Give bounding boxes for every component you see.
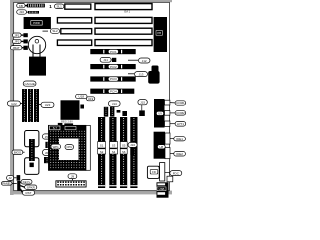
svg-text:PANEL: PANEL [2, 182, 11, 186]
QFP controller chip [61, 100, 80, 120]
PCI slot 4 [90, 89, 134, 94]
cap right of jumpers [122, 111, 127, 116]
floppy tab [160, 163, 165, 181]
svg-text:S1: S1 [100, 143, 104, 147]
SIMM bank label 3a [120, 142, 127, 148]
svg-text:S3: S3 [112, 143, 116, 147]
svg-text:J13: J13 [139, 72, 144, 76]
jumper JP2 pins [23, 39, 27, 43]
svg-text:JBAT: JBAT [13, 46, 20, 50]
COM2 oval [170, 111, 186, 115]
svg-text:S.7: S.7 [53, 126, 58, 130]
svg-text:PCI3: PCI3 [110, 77, 117, 81]
SIMM socket 4 [130, 117, 137, 188]
serial tab 1 [165, 100, 170, 105]
ISA slot 2 segment B [95, 28, 152, 34]
svg-text:KB: KB [19, 4, 23, 8]
power led label [17, 10, 28, 14]
jumper JP1 oval [13, 33, 24, 37]
panel oval c [22, 190, 34, 195]
ISA slot 4 segment A [57, 40, 91, 45]
svg-text:U19: U19 [88, 97, 94, 101]
SIMM socket 3 [120, 117, 127, 188]
memory oval J16 [128, 142, 137, 148]
svg-text:CPU: CPU [66, 145, 72, 149]
svg-text:J11: J11 [103, 58, 108, 62]
svg-text:COM2: COM2 [176, 111, 185, 115]
regulator bits [64, 123, 73, 126]
BIOS label oval [12, 150, 25, 154]
SIMM jumper oval [109, 101, 121, 106]
multi I/O pin header [56, 181, 86, 187]
svg-text:IDE2: IDE2 [176, 152, 183, 156]
jumper JP1 pins [23, 33, 27, 37]
serial oval on block [156, 111, 163, 115]
QFP label oval 2 [86, 97, 94, 101]
IDE1 oval [170, 137, 185, 141]
svg-text:JP2: JP2 [14, 40, 20, 44]
svg-text:S5: S5 [122, 143, 126, 147]
ZIF lever strip [86, 125, 90, 170]
floppy oval [165, 171, 182, 176]
svg-text:J16: J16 [130, 143, 135, 147]
front panel fan bracket [17, 181, 24, 193]
front panel oval J2 [7, 175, 17, 180]
floppy connector D label [150, 169, 158, 174]
svg-text:REG 2.8V: REG 2.8V [61, 119, 73, 123]
svg-text:U22: U22 [11, 102, 17, 106]
svg-text:KEYL: KEYL [23, 180, 31, 184]
ISA slot 2 segment A [61, 29, 92, 34]
jumper oval J13 with arrow [128, 72, 148, 77]
external connector E [157, 182, 169, 197]
jumper row oval J12 with arrow [128, 58, 150, 63]
svg-text:IDE1: IDE1 [176, 137, 183, 141]
serial tab 3 [165, 121, 170, 126]
svg-text:RST: RST [26, 191, 32, 195]
IDE tab 1 [165, 133, 170, 144]
svg-text:SL2: SL2 [52, 29, 58, 33]
small bar near jumpers [117, 110, 121, 113]
svg-text:SPKR: SPKR [27, 185, 36, 189]
keyboard DIN connector [27, 4, 45, 8]
svg-text:FD: FD [152, 170, 156, 174]
QFP label oval 1 [76, 94, 87, 98]
cache chip 2 [28, 89, 33, 122]
ISA slot 1 segment A [65, 4, 91, 9]
CPU socket 7 [49, 125, 86, 170]
svg-text:ISA 1: ISA 1 [124, 10, 131, 14]
jumper JP2 oval [13, 39, 24, 43]
svg-text:S2: S2 [100, 150, 104, 154]
jumper JP3 pins [23, 46, 27, 50]
serial tab 2 [165, 111, 170, 116]
svg-text:J14: J14 [112, 102, 117, 106]
ISA slot 1 segment B [95, 4, 152, 10]
external tab [167, 176, 173, 182]
jumper JP3 oval [11, 46, 24, 50]
SIMM bank label 1a [98, 142, 106, 148]
board shadow top [10, 0, 172, 2]
cache chip 3 [34, 89, 39, 122]
cache right oval [39, 102, 54, 107]
svg-text:J9: J9 [71, 174, 75, 178]
fan label oval [68, 174, 77, 180]
COM1 oval [170, 101, 186, 105]
jumper J6 pins [44, 157, 50, 163]
QFP side cap [80, 105, 84, 109]
svg-text:P8: P8 [157, 31, 161, 35]
battery [28, 36, 45, 57]
front panel oval J3 [1, 182, 16, 186]
svg-text:PCI2: PCI2 [110, 65, 117, 69]
flash BIOS chip [29, 139, 35, 161]
ISA slot 3 segment B [95, 17, 152, 23]
jumper row oval J11 [100, 57, 112, 62]
svg-text:SL1: SL1 [57, 5, 63, 9]
svg-text:1: 1 [49, 4, 52, 9]
IDE2 oval [170, 151, 185, 156]
ISA slot 1 label [55, 4, 64, 9]
svg-text:U18: U18 [79, 95, 85, 99]
svg-text:JP1: JP1 [14, 33, 20, 37]
panel oval b [25, 185, 37, 189]
SIMM bank label 2a [110, 142, 118, 148]
jumper oval J6 [43, 149, 51, 155]
svg-text:J12: J12 [142, 59, 147, 63]
svg-text:U23: U23 [45, 103, 51, 107]
svg-text:LPT1: LPT1 [177, 122, 185, 126]
svg-text:S6: S6 [122, 150, 126, 154]
svg-text:BIOS: BIOS [14, 150, 21, 154]
board shadow bottom [10, 191, 172, 195]
SIMM header jumper 1 [104, 107, 108, 117]
serial port block A [154, 99, 165, 128]
board shadow left [10, 0, 14, 195]
cache left oval [7, 101, 22, 106]
SIMM bank label 2b [110, 149, 118, 154]
PCI slot 2 [90, 64, 135, 69]
svg-text:J15: J15 [140, 101, 145, 105]
front panel J2 pins [17, 175, 21, 181]
cache chip 1 [22, 89, 27, 122]
SIMM bank label 3b [120, 149, 127, 154]
svg-text:FDC: FDC [173, 171, 180, 175]
DIP socket 1 [25, 131, 39, 147]
svg-text:U9: U9 [158, 112, 162, 116]
power label oval with arrow [43, 29, 60, 34]
svg-text:J5: J5 [45, 135, 49, 139]
svg-text:S4: S4 [112, 150, 116, 154]
header bar J10 [28, 11, 39, 14]
board outline [14, 2, 170, 190]
svg-text:PWR: PWR [33, 21, 40, 25]
svg-text:WP1: WP1 [53, 145, 60, 149]
jumper J11 pins [112, 58, 116, 62]
power connector block [24, 17, 51, 29]
svg-text:PCI1: PCI1 [110, 50, 117, 54]
IDE block B [154, 132, 165, 159]
PCI slot 1 [90, 49, 135, 54]
regulator blob [148, 66, 159, 84]
SIMM socket 2 [109, 117, 116, 188]
svg-text:J6: J6 [45, 151, 49, 155]
cap with oval label [138, 100, 147, 111]
keyboard connector label KB [17, 3, 27, 7]
PCI slot 3 [90, 76, 135, 81]
DIP socket 2 [25, 158, 39, 175]
IDE oval on block [157, 145, 165, 149]
svg-text:U8: U8 [160, 145, 164, 149]
SIMM header jumper 2 [110, 107, 114, 117]
chip in socket 2 [30, 163, 34, 168]
panel oval a [21, 180, 32, 184]
svg-text:J10: J10 [19, 10, 24, 14]
cache label oval [23, 81, 36, 86]
SIMM bank label 1b [98, 149, 106, 154]
svg-text:J2: J2 [9, 176, 13, 180]
chipset U1 [29, 57, 46, 76]
ISA slot 3 segment A [57, 18, 91, 23]
svg-text:CACHE: CACHE [24, 82, 35, 86]
floppy connector D [147, 166, 159, 178]
LPT oval [170, 122, 186, 127]
svg-text:PCI4: PCI4 [110, 89, 117, 93]
socket ring label [51, 144, 61, 149]
svg-text:USB: USB [159, 187, 165, 191]
J16 pins [130, 149, 134, 155]
svg-text:COM1: COM1 [176, 101, 185, 105]
SIMM socket 1 [98, 117, 105, 188]
IDE tab 2 [165, 148, 170, 159]
regulator bar [58, 123, 63, 126]
ISA slot 4 segment B [95, 40, 152, 46]
jumper oval J5 [43, 134, 51, 139]
jumper J5 pins [45, 142, 50, 148]
AT power connector [154, 17, 167, 52]
